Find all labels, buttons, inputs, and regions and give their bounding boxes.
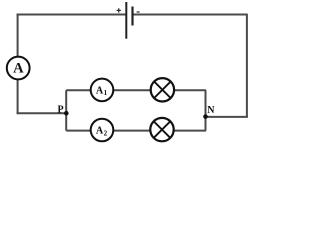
svg-text:A: A <box>13 61 24 77</box>
svg-text:1: 1 <box>104 89 108 97</box>
svg-text:P: P <box>57 104 63 115</box>
svg-text:N: N <box>207 105 215 116</box>
svg-text:2: 2 <box>104 129 108 137</box>
